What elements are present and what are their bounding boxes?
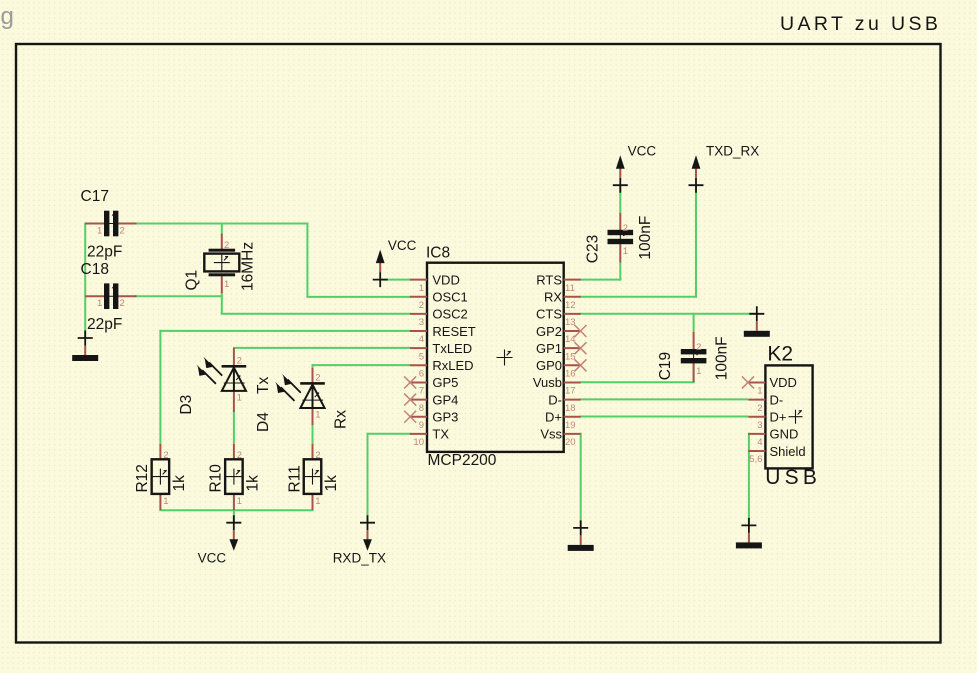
svg-text:17: 17 <box>565 386 576 397</box>
wire RESET net vertical to R12 <box>159 330 161 444</box>
svg-text:D4: D4 <box>255 412 272 432</box>
supply VCC at IC pin 1 <box>373 238 417 287</box>
svg-text:1k: 1k <box>171 475 188 492</box>
svg-text:20: 20 <box>565 437 576 448</box>
capacitor C23 <box>585 213 655 263</box>
svg-text:C18: C18 <box>81 261 109 278</box>
svg-text:RTS: RTS <box>536 272 562 287</box>
wire OSC2 net: C18 row <box>135 295 223 297</box>
pin 11 RTS <box>536 272 580 293</box>
wire RTS net to C23 <box>580 279 622 281</box>
pin 16 GP0 <box>536 358 581 379</box>
pin 19 D+ <box>545 410 581 431</box>
svg-text:UART zu USB: UART zu USB <box>780 13 941 35</box>
pin K2-1 VDD <box>748 375 797 396</box>
capacitor C19 <box>657 332 731 382</box>
wire VDD pin to VCC <box>380 279 411 281</box>
emission arrows D3 <box>202 362 222 383</box>
svg-text:R12: R12 <box>134 464 151 492</box>
svg-text:2: 2 <box>419 300 424 311</box>
net label TXD_RX (up arrow) <box>689 143 760 192</box>
svg-text:2: 2 <box>315 450 320 461</box>
wire VCC rail under resistors <box>159 509 313 511</box>
pin K2-4 GND <box>748 427 798 448</box>
svg-text:19: 19 <box>565 420 576 431</box>
pin 5 TxLED <box>410 341 472 362</box>
svg-text:2: 2 <box>315 372 320 383</box>
svg-text:3: 3 <box>757 420 762 431</box>
svg-text:C23: C23 <box>585 235 602 263</box>
svg-text:1: 1 <box>97 298 102 309</box>
svg-text:R11: R11 <box>286 465 303 492</box>
wire Vusb net to C19 <box>580 381 695 383</box>
resistor R10 <box>208 444 262 510</box>
svg-text:GND: GND <box>770 427 799 442</box>
no-connect X pin 7 <box>404 376 416 388</box>
svg-text:CTS: CTS <box>536 307 562 322</box>
crystal Q1 <box>184 234 257 293</box>
svg-text:VCC: VCC <box>388 238 417 253</box>
wire TX net vertical to RXD_TX <box>367 433 369 523</box>
svg-text:1k: 1k <box>323 475 340 492</box>
svg-text:1: 1 <box>315 410 320 421</box>
wire OSC1 net: C17 right to corner <box>135 223 309 225</box>
resistor R12 <box>134 444 188 510</box>
wire C23 top to VCC arrow <box>619 185 621 213</box>
svg-text:GP3: GP3 <box>432 410 458 425</box>
svg-text:1: 1 <box>97 226 102 237</box>
svg-text:RXD_TX: RXD_TX <box>333 551 386 566</box>
wire RxLED vertical to D4 <box>312 364 314 370</box>
svg-text:1: 1 <box>757 386 762 397</box>
svg-text:5,6: 5,6 <box>749 454 762 465</box>
svg-text:12: 12 <box>565 300 576 311</box>
wire OSC1 net: vertical drop at x307 <box>306 223 308 298</box>
connector K2 USB <box>742 342 821 489</box>
pin K2-3 D+ <box>748 410 786 431</box>
svg-text:C19: C19 <box>657 352 674 380</box>
wire TX net horizontal <box>367 433 411 435</box>
svg-text:g: g <box>1 3 14 30</box>
svg-text:K2: K2 <box>767 342 793 365</box>
svg-text:D+: D+ <box>770 410 787 425</box>
svg-text:Vss: Vss <box>540 427 562 442</box>
supply VCC bottom (down arrow) <box>198 515 242 565</box>
no-connect X K2 pin 1 <box>742 376 754 388</box>
svg-text:TxLED: TxLED <box>432 341 472 356</box>
svg-text:RESET: RESET <box>432 324 475 339</box>
svg-text:GP4: GP4 <box>432 392 458 407</box>
svg-text:5: 5 <box>419 351 424 362</box>
svg-text:TX: TX <box>432 427 449 442</box>
pin 6 RxLED <box>410 358 474 379</box>
svg-text:10: 10 <box>413 437 424 448</box>
op-amp U1 IC8 MCP2200 <box>404 245 586 469</box>
pin 2 OSC1 <box>410 290 468 311</box>
no-connect X pin 9 <box>404 411 416 423</box>
ground symbol at CTS net <box>744 306 770 337</box>
wire crystal bottom to OSC2 corner <box>221 292 223 314</box>
svg-text:GP2: GP2 <box>536 324 562 339</box>
ground symbol left <box>72 331 98 362</box>
svg-text:GP1: GP1 <box>536 341 562 356</box>
svg-text:2: 2 <box>623 223 628 234</box>
svg-text:Q1: Q1 <box>184 270 201 291</box>
pin 3 OSC2 <box>410 307 468 328</box>
svg-text:1: 1 <box>315 496 320 507</box>
svg-text:OSC1: OSC1 <box>432 290 467 305</box>
svg-text:R10: R10 <box>208 464 225 493</box>
ground symbol at Vss net <box>568 520 594 551</box>
svg-text:1: 1 <box>237 496 242 507</box>
wire RESET net horizontal <box>159 330 411 332</box>
wire RX net vertical to TXD_RX arrow <box>695 185 697 298</box>
pin 15 GP1 <box>536 341 581 362</box>
svg-text:D-: D- <box>548 392 562 407</box>
ground symbol at USB shield <box>736 518 762 549</box>
svg-text:16: 16 <box>565 369 576 380</box>
wire gnd net left vertical <box>84 223 86 339</box>
svg-text:2: 2 <box>120 226 125 237</box>
pin K2-2 D- <box>748 392 783 413</box>
svg-text:D-: D- <box>770 392 784 407</box>
wire RX net horizontal <box>580 296 697 298</box>
wire VCC rail to supply arrow <box>233 509 235 523</box>
wire OSC1 net: into pin 2 <box>306 296 411 298</box>
capacitor C17 <box>81 188 137 261</box>
svg-text:TXD_RX: TXD_RX <box>706 143 759 158</box>
svg-text:C17: C17 <box>81 188 109 205</box>
svg-text:USB: USB <box>765 466 821 489</box>
wire D3 cathode down to R10 <box>233 410 235 444</box>
pin 17 Vusb <box>533 375 581 396</box>
net label RXD_TX (down arrow) <box>333 515 386 565</box>
capacitor C18 <box>81 261 137 333</box>
svg-text:1: 1 <box>696 366 701 377</box>
pin 8 GP4 <box>410 392 459 413</box>
svg-text:4: 4 <box>419 334 424 345</box>
svg-text:VDD: VDD <box>770 375 797 390</box>
svg-text:18: 18 <box>565 403 576 414</box>
svg-text:16MHz: 16MHz <box>240 242 257 291</box>
svg-text:2: 2 <box>237 450 242 461</box>
svg-text:1: 1 <box>237 393 242 404</box>
no-connect X pin 8 <box>404 394 416 406</box>
svg-text:RxLED: RxLED <box>432 358 473 373</box>
svg-text:1: 1 <box>623 246 628 257</box>
supply VCC at C23 <box>613 143 657 192</box>
LED D3 <box>178 348 246 415</box>
svg-text:Vusb: Vusb <box>533 375 562 390</box>
svg-text:GP0: GP0 <box>536 358 562 373</box>
svg-text:OSC2: OSC2 <box>432 307 467 322</box>
svg-text:IC8: IC8 <box>426 245 450 262</box>
pin 4 RESET <box>410 324 476 345</box>
svg-text:3: 3 <box>419 317 424 328</box>
svg-text:Tx: Tx <box>255 377 272 394</box>
svg-text:RX: RX <box>544 290 562 305</box>
svg-text:1: 1 <box>419 283 424 294</box>
svg-text:14: 14 <box>565 334 576 345</box>
svg-text:D+: D+ <box>545 410 562 425</box>
svg-text:2: 2 <box>224 240 229 251</box>
pin 20 Vss <box>540 427 580 448</box>
svg-text:2: 2 <box>696 342 701 353</box>
svg-text:2: 2 <box>120 298 125 309</box>
wire CTS net to ground <box>580 313 757 315</box>
svg-text:22pF: 22pF <box>87 316 122 333</box>
svg-text:7: 7 <box>419 386 424 397</box>
svg-text:100nF: 100nF <box>637 216 654 260</box>
pin 7 GP5 <box>410 375 459 396</box>
pin 13 CTS <box>536 307 581 328</box>
wire C19 top vertical <box>693 313 695 333</box>
svg-text:22pF: 22pF <box>87 244 122 261</box>
pin 10 TX <box>410 427 449 448</box>
wire R12 bottom to rail <box>159 509 161 511</box>
svg-text:100nF: 100nF <box>714 336 731 380</box>
svg-text:1: 1 <box>224 279 229 290</box>
svg-text:13: 13 <box>565 317 576 328</box>
svg-text:Shield: Shield <box>770 444 806 459</box>
wire C23 bottom vertical <box>619 262 621 281</box>
pin 1 VDD <box>410 272 460 293</box>
svg-text:4: 4 <box>757 437 762 448</box>
svg-text:8: 8 <box>419 403 424 414</box>
wire C19 bottom joins Vusb <box>693 364 695 384</box>
emission arrows D4 <box>281 380 301 401</box>
svg-text:15: 15 <box>565 351 576 362</box>
pin 12 RX <box>544 290 581 311</box>
wire D- net <box>580 398 749 400</box>
svg-text:2: 2 <box>163 450 168 461</box>
pin 9 GP3 <box>410 410 459 431</box>
pin 18 D- <box>548 392 580 413</box>
svg-text:VCC: VCC <box>628 143 657 158</box>
pin K2-5,6 Shield <box>748 444 805 465</box>
svg-text:GP5: GP5 <box>432 375 458 390</box>
no-connect X pin 16 <box>575 359 587 371</box>
svg-text:1k: 1k <box>244 475 261 492</box>
svg-text:Rx: Rx <box>333 410 350 429</box>
svg-text:1: 1 <box>163 496 168 507</box>
no-connect X pin 15 <box>575 342 587 354</box>
wire Vss net vertical to ground <box>580 433 582 528</box>
svg-text:MCP2200: MCP2200 <box>428 452 497 469</box>
svg-text:D3: D3 <box>178 395 195 415</box>
svg-text:2: 2 <box>757 403 762 414</box>
wire D4 cathode down to R11 <box>312 424 314 444</box>
svg-text:9: 9 <box>419 420 424 431</box>
wire K2 GND/Shield vertical to ground <box>748 433 750 526</box>
resistor R11 <box>286 444 340 510</box>
wire RxLED net horizontal <box>312 364 411 366</box>
wire OSC2 net: into pin 3 <box>221 313 411 315</box>
svg-text:6: 6 <box>419 369 424 380</box>
wire D+ net <box>580 416 749 418</box>
svg-text:2: 2 <box>237 355 242 366</box>
svg-text:VDD: VDD <box>432 272 459 287</box>
svg-text:VCC: VCC <box>198 551 227 566</box>
wire TxLED net horizontal <box>233 347 411 349</box>
no-connect X pin 14 <box>575 325 587 337</box>
wire crystal top connection <box>221 223 223 236</box>
pin 14 GP2 <box>536 324 581 345</box>
LED D4 <box>255 368 350 432</box>
svg-text:11: 11 <box>565 283 575 294</box>
